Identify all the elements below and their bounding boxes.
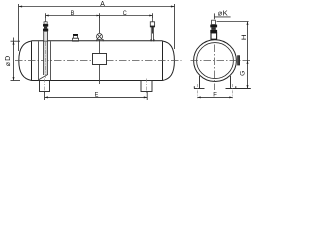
svg-text:A: A [100,1,105,8]
K leader tick [213,13,215,19]
svg-text:B: B [71,10,75,17]
standpipe bottom diagonal [39,75,48,80]
fitting P2 flanged opening [97,34,104,42]
left leg extension line [44,92,46,101]
N1 lower neck tube [44,31,48,41]
svg-text:H: H [241,34,248,40]
P1 cap [73,34,78,36]
K leader underline [214,16,230,18]
end view left leg web [199,76,201,89]
svg-text:⌀D: ⌀D [5,55,12,66]
F right arrowhead [229,96,232,98]
right support leg [141,81,152,92]
standpipe centerline [45,42,47,78]
left dished head [19,41,32,80]
G top arrowhead [247,61,249,64]
N2 stem center [152,27,154,34]
nozzle N2 riser [150,16,154,42]
dimension F line [198,96,233,98]
H dimension line [247,22,249,89]
right dished head [163,41,175,80]
N2 flange bottom band [150,26,154,28]
A left arrowhead [19,6,23,8]
N1 upper box [44,22,47,24]
EN flange 2 [210,30,217,33]
C right end tick [152,13,154,18]
D bottom arrowhead [13,77,15,80]
N1 stem line [45,16,47,22]
leader from mid tick to top fitting [99,16,101,34]
EN pipe box [212,20,216,24]
left support leg [40,81,50,92]
P2 cross diagonals [97,34,101,38]
N2 pipe left wall [150,27,152,41]
B left arrowhead [46,15,49,17]
dimension D vertical line [11,38,21,81]
P1 body [74,36,78,39]
B left end tick [45,13,47,18]
P1 base [73,38,79,41]
H top arrowhead [247,22,249,25]
fitting P1 screwed plug [73,34,79,41]
end view right leg web [230,76,232,89]
B/C mid arrowhead [97,15,100,17]
svg-text:E: E [95,92,99,99]
A right extension line [174,4,176,49]
end view horizontal centerline [191,60,252,62]
drain pipe upper [99,40,101,54]
A right arrowhead [171,6,175,8]
end view vertical centerline [213,45,215,91]
end view right foot with H extension [226,88,251,90]
svg-text:⌀K: ⌀K [218,9,228,18]
EN neck [211,27,216,30]
svg-text:F: F [213,92,217,99]
N2 stem line [152,16,154,22]
P2 circle [97,34,103,40]
right foot centerline [232,84,234,98]
standpipe shading [44,42,48,76]
D top arrowhead [13,41,15,44]
N2 base flare left [150,39,151,41]
left head weld seam [31,41,33,80]
right leg extension line [146,92,148,101]
manhole plate rectangle [93,54,107,65]
dimension A line [19,4,175,51]
D bottom extension line [11,80,21,82]
D top extension line [11,40,21,42]
nozzle N1 riser with valve [43,16,48,42]
B/C mid tick [99,13,101,18]
tank horizontal centerline [15,60,182,62]
dimension B/C line [46,13,153,33]
left foot outer up-tick [193,86,195,88]
svg-text:C: C [123,10,127,17]
N2 flange box [150,22,154,27]
outer shell circle [194,40,237,82]
N1 neck [44,27,47,29]
right head weld seam [162,41,164,80]
E left arrowhead [45,96,48,98]
inner shell circle [197,43,234,79]
E right arrowhead [144,96,147,98]
N2 pipe right wall [153,27,155,41]
H top extension line [217,21,249,23]
EN base box [211,33,217,39]
EN flange 1 [210,25,217,28]
end view left foot [194,88,205,90]
N1 flange 1 [43,24,48,27]
right leg centerline [146,79,148,95]
F left arrowhead [198,96,201,98]
C right arrowhead [149,15,152,17]
dimension E line [45,96,148,98]
drain pipe lower [99,65,101,85]
end view top nozzle [210,20,217,39]
tank shell bottom line [32,80,163,82]
svg-text:G: G [240,70,246,76]
tank shell top line [32,40,163,42]
H G bottom arrowhead [247,85,249,88]
N2 base flare right [153,39,154,41]
left leg centerline [44,79,46,95]
left foot centerline [197,84,199,98]
right foot outer up-tick [235,86,237,88]
internal standpipe through tank [39,41,51,80]
side fitting on shell [238,56,240,65]
A left extension line [18,4,20,51]
N1 flange 2 [43,29,48,32]
P2 base feet [97,40,103,42]
